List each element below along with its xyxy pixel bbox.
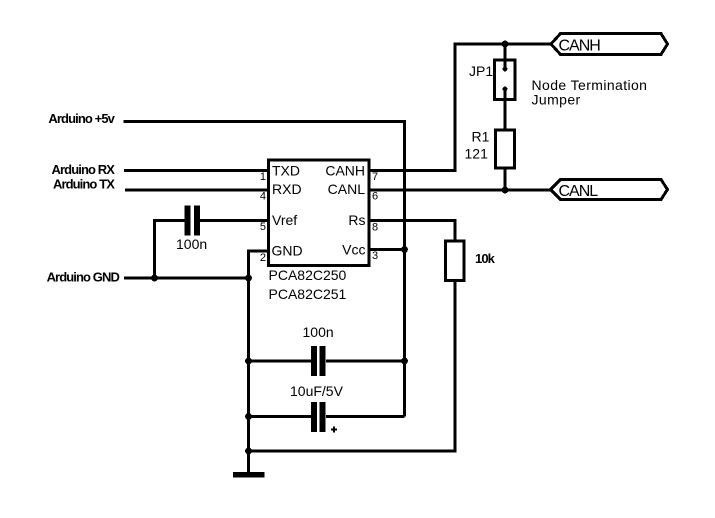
capacitor C3 10uF plates <box>311 402 317 432</box>
junction node GND/bottom rail <box>245 448 252 455</box>
svg-text:Arduino GND: Arduino GND <box>47 270 120 285</box>
svg-text:5: 5 <box>260 221 266 233</box>
svg-text:6: 6 <box>372 191 378 203</box>
wire C1 left plate down to GND rail <box>155 221 185 279</box>
wire 10uF C3 right <box>326 415 405 418</box>
svg-text:Arduino TX: Arduino TX <box>53 177 115 192</box>
junction node GND/C2 <box>245 358 252 365</box>
svg-text:PCA82C250: PCA82C250 <box>269 267 347 283</box>
svg-text:10k: 10k <box>475 251 496 266</box>
svg-text:R1: R1 <box>472 129 490 145</box>
wire JP1 pin 1 stub <box>504 60 507 67</box>
svg-text:3: 3 <box>372 250 378 262</box>
svg-text:TXD: TXD <box>272 163 300 179</box>
junction node +5v/C2 <box>401 358 408 365</box>
capacitor C2 100n plates <box>311 346 317 376</box>
svg-text:JP1: JP1 <box>469 63 493 79</box>
wire JP1 to R1 <box>504 100 507 131</box>
ground symbol bar <box>233 472 265 478</box>
svg-text:PCA82C251: PCA82C251 <box>269 286 347 302</box>
svg-text:Rs: Rs <box>348 212 365 228</box>
wire Vref pin 5 to capacitor C1 <box>200 219 269 222</box>
wire GND pin 2 down to ground <box>249 251 269 472</box>
wire Arduino TX to RXD pin 4 <box>125 189 268 192</box>
svg-text:100n: 100n <box>176 236 207 252</box>
svg-text:Vref: Vref <box>272 212 297 228</box>
svg-text:Arduino +5v: Arduino +5v <box>48 111 115 126</box>
junction node CANH/JP1 <box>502 41 509 48</box>
wire Arduino +5v to Vcc vertical <box>124 122 405 417</box>
svg-text:8: 8 <box>372 222 378 234</box>
capacitor C1 100n plates <box>184 206 190 236</box>
JP1 pin 2 dot <box>503 87 508 92</box>
svg-text:Jumper: Jumper <box>532 92 581 108</box>
wire 10uF C3 left <box>249 415 312 418</box>
net flag CANL hexagon <box>551 180 668 200</box>
wire CANH pin 7 up to CANH net <box>369 44 551 171</box>
wire JP1 pin 2 stub <box>504 91 507 101</box>
svg-text:121: 121 <box>465 146 489 162</box>
wire R1 bottom to CANL <box>504 169 507 190</box>
svg-text:7: 7 <box>372 171 378 183</box>
IC U1 body PCA82C250 <box>269 160 370 266</box>
junction node GND/C3 <box>245 413 252 420</box>
svg-text:CANH: CANH <box>325 163 365 179</box>
wire Arduino GND <box>124 277 250 280</box>
JP1 pin 1 dot <box>503 67 508 72</box>
wire Rs pin 8 to resistor R2 <box>369 221 455 242</box>
jumper JP1 body <box>495 60 516 100</box>
wire 100n C2 left <box>249 360 312 363</box>
wire JP1 top <box>504 44 507 60</box>
junction node Vcc <box>401 246 408 253</box>
wire R2 bottom to ground rail <box>249 281 456 451</box>
svg-text:2: 2 <box>260 252 266 264</box>
junction node GND rail / GND pin <box>245 275 252 282</box>
svg-text:Arduino RX: Arduino RX <box>52 162 116 177</box>
resistor R1 body <box>496 130 515 168</box>
svg-text:10uF/5V: 10uF/5V <box>290 383 344 399</box>
svg-text:Vcc: Vcc <box>342 242 365 258</box>
wire 100n C2 right <box>326 360 405 363</box>
svg-text:1: 1 <box>260 171 266 183</box>
junction node GND rail / C1 branch <box>151 275 158 282</box>
wire Arduino RX to TXD pin 1 <box>124 169 268 172</box>
svg-text:CANL: CANL <box>328 181 366 197</box>
svg-text:CANL: CANL <box>559 183 599 200</box>
svg-text:CANH: CANH <box>559 38 601 55</box>
wire Vcc pin 3 <box>369 248 405 251</box>
svg-text:RXD: RXD <box>272 181 302 197</box>
svg-text:GND: GND <box>272 243 303 259</box>
junction node CANL/R1 <box>502 187 509 194</box>
wire CANL pin 6 to CANL net <box>369 189 551 192</box>
svg-text:4: 4 <box>260 191 266 203</box>
net flag CANH hexagon <box>551 34 668 55</box>
plus sign of C3 <box>331 427 337 433</box>
svg-text:100n: 100n <box>303 324 334 340</box>
resistor R2 10k body <box>446 241 465 281</box>
